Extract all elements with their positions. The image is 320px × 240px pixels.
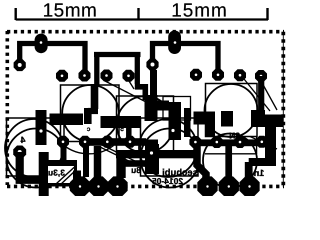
svg-text:4: 4 [20, 135, 25, 145]
polygon strip right of R1r [184, 108, 191, 137]
trace from P4 down right [20, 152, 39, 180]
dimension tick left [14, 8, 16, 20]
capacitor C6 outline circle [203, 134, 257, 188]
IC U2 pin 6 pad [211, 136, 223, 148]
capacitor C6 outline square lines [205, 136, 257, 154]
silkscreen text 4 mirrored [20, 135, 25, 145]
polygon bar2 [101, 116, 142, 128]
polygon bar3 [194, 112, 216, 125]
capacitor C1 outer outline arc [60, 142, 114, 154]
IC U1 pin 3 pad [100, 69, 112, 81]
trace band to octagon E [225, 144, 232, 178]
trace pi top bar [94, 52, 141, 57]
svg-text:8u: 8u [131, 165, 141, 175]
IC U2 bottom row connecting trace [196, 139, 262, 146]
trace from pad P1r to IC U2 pin 2 [175, 44, 218, 75]
octagon pad B [88, 176, 108, 196]
IC U2 pin 4 pad [255, 70, 267, 82]
svg-text:2014-05: 2014-05 [152, 176, 183, 186]
board outline dotted top [7, 30, 284, 34]
IC U2 pin 3 pad [234, 69, 246, 81]
trace pi left leg upper [94, 55, 99, 87]
trace stub below bar3 [206, 124, 215, 137]
pad P1r oblong [168, 31, 181, 55]
IC U1 pin 8 pad [124, 136, 136, 148]
bridge center to R1r [157, 101, 170, 111]
capacitor C1 outline circle [62, 85, 119, 142]
capacitor C2 outline circle A [5, 119, 63, 177]
board outline dotted left [6, 31, 10, 185]
pad P1 oblong [35, 34, 48, 54]
capacitor C4 outline circle [205, 84, 258, 137]
polygon pad center column lower [145, 144, 159, 174]
capacitor C2 outline square [7, 118, 65, 176]
svg-text:c: c [86, 126, 90, 133]
board outline dotted right [281, 32, 285, 188]
svg-text:1n: 1n [254, 168, 265, 178]
svg-text:15mm: 15mm [43, 1, 98, 22]
polygon bar3r vertical [251, 110, 265, 127]
board outline right thin line [282, 32, 284, 187]
trace pi jog horizontal [88, 108, 98, 114]
polygon center column junction [145, 140, 158, 145]
capacitor C5 outline square [141, 118, 199, 176]
stub bar2 to U1 pin8 [126, 128, 132, 138]
trace bar3r to octagon F downleg [245, 162, 253, 178]
trace down to octagon C [116, 156, 125, 178]
capacitor value box white window [48, 166, 74, 183]
silkscreen text 2N mirrored [229, 131, 240, 141]
octagon pad F [239, 176, 259, 196]
capacitor value box black surround [43, 160, 78, 187]
IC U2 pin 2 pad [212, 69, 224, 81]
trace from pad P1 to IC U1 pin 2 [41, 44, 85, 76]
pad P4 octagon [13, 146, 26, 159]
dimension line [16, 18, 268, 20]
silkscreen text 5 mirrored [120, 126, 124, 133]
pad P2 octagon [14, 59, 26, 71]
IC U1 pin 4 pad [122, 70, 134, 82]
bottom-left polygon blob [39, 152, 49, 196]
trace from pad P1r to pad P2r [153, 44, 176, 65]
capacitor C5 outline circle A [139, 119, 197, 177]
IC U1 pin 7 pad [101, 136, 113, 148]
trace P2r down to center column [150, 70, 157, 100]
trace from U2 pin5 to octagon D [197, 146, 206, 180]
capacitor C5 outline circle B [141, 129, 200, 188]
capacitor C4 outline square [206, 84, 258, 137]
svg-text:15mm: 15mm [171, 1, 227, 22]
trace pi right leg [135, 55, 140, 85]
silkscreen text 8u mirrored [131, 165, 141, 175]
long horizontal trace bottom center [116, 150, 197, 158]
polygon pad center column upper [145, 95, 158, 121]
trace from U1 pin5 down [61, 146, 67, 166]
transistor Q2 outline lines [244, 79, 277, 149]
silkscreen text c mirrored [86, 126, 90, 133]
capacitor C3 outline square [117, 96, 174, 153]
octagon pad E [219, 176, 239, 196]
dimension tick middle [137, 8, 139, 20]
trace from pad P1 to pad P2 [20, 44, 41, 65]
IC U1 bottom row connecting trace [80, 138, 146, 146]
svg-text:2N: 2N [229, 131, 240, 141]
IC U1 pin 2 pad [78, 69, 90, 81]
octagon pad C [107, 176, 127, 196]
dimension tick right [266, 8, 268, 20]
capacitor C2 arcs over value box [57, 167, 76, 185]
trace pi right jog [135, 87, 146, 100]
silkscreen text sechubi mirrored [162, 167, 198, 178]
IC U2 pin 7 pad [234, 136, 246, 148]
IC U2 pin 1 pad [190, 69, 202, 81]
trace bar3r to octagon F vertical [265, 126, 276, 166]
capacitor C1 outline square [61, 85, 120, 142]
resistor R3 outline [163, 97, 191, 121]
stub value box to octagon A [73, 171, 81, 180]
IC U1 pin 6 pad [79, 136, 91, 148]
trace pi left leg lower [91, 84, 99, 109]
trace octagon C to center column [119, 160, 146, 167]
IC U2 pin 5 pad [189, 136, 201, 148]
silkscreen text 2014-05 mirrored [152, 176, 183, 186]
octagon pad A [70, 176, 90, 196]
silkscreen text 1n mirrored [254, 168, 265, 178]
trace bar3r to octagon F horizontal [249, 158, 276, 166]
transistor Q1 outline lines [100, 81, 150, 165]
polygon bar3r horizontal [259, 115, 283, 128]
svg-text:3,3u: 3,3u [48, 167, 65, 177]
svg-text:5: 5 [120, 126, 124, 133]
trace pi jog down to bar1 [84, 108, 92, 124]
IC U2 pin 8 pad [256, 136, 268, 148]
capacitor C2 outline circle B [7, 129, 66, 188]
trace from U2 pin 4 down to bar3r [258, 76, 264, 112]
polygon bar3b [221, 111, 233, 127]
trace from U1 pin 6 down to octagon A [83, 146, 89, 177]
polygon pad R1 [36, 110, 47, 145]
IC U1 pin 1 pad [56, 70, 68, 82]
board outline dotted bottom [7, 185, 284, 189]
polygon bar1 [50, 114, 84, 126]
pad P2r octagon [146, 58, 158, 70]
IC U1 pin 5 pad [57, 136, 69, 148]
value text 3.3u mirrored black [48, 167, 65, 177]
octagon pad D [197, 176, 217, 196]
trace from U1 pin6 to octagon B [94, 146, 102, 178]
capacitor C3 outline circle [117, 96, 174, 153]
polygon pad R1r [169, 102, 182, 140]
